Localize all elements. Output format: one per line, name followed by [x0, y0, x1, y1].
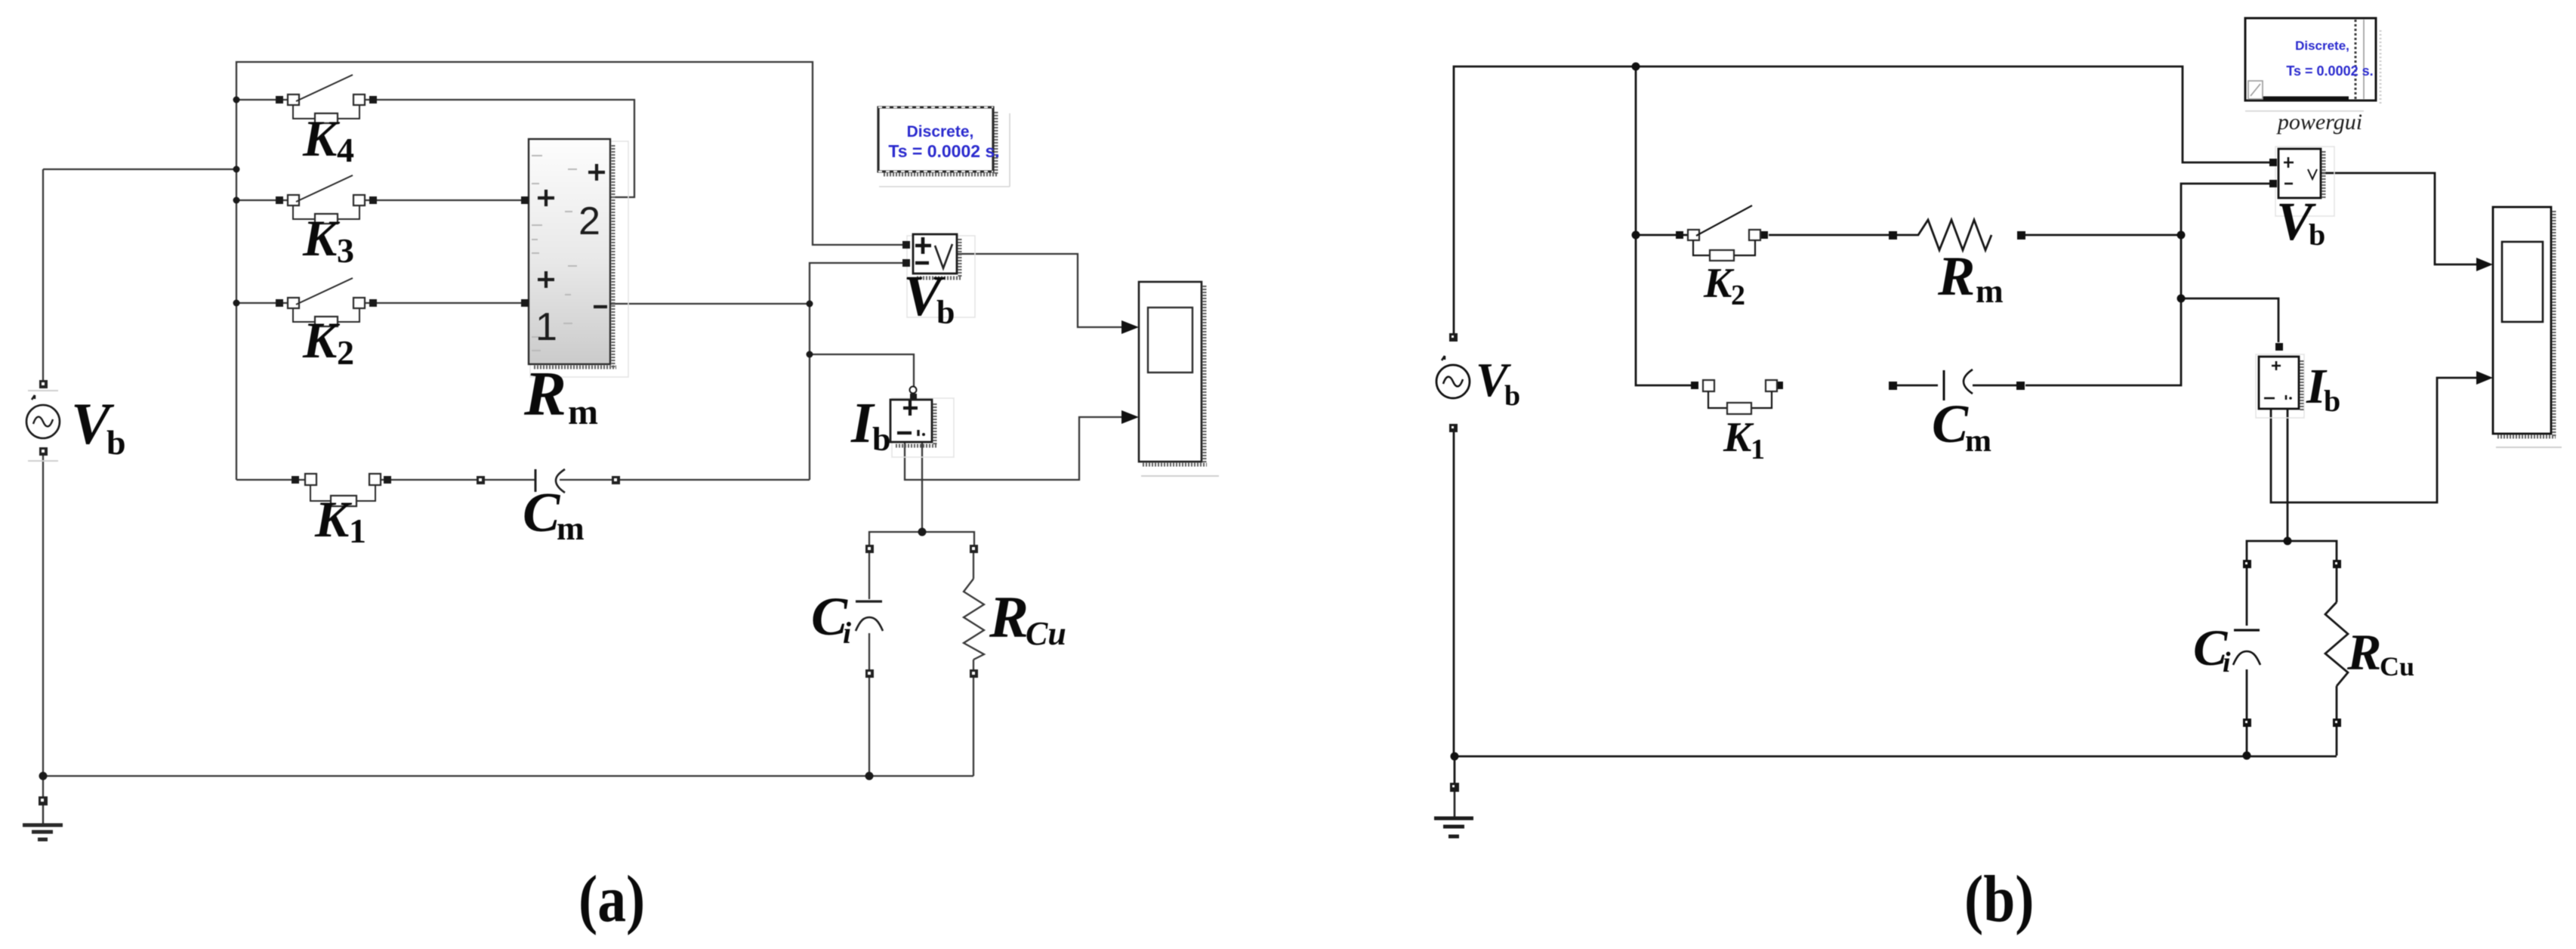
svg-text:K: K — [1703, 260, 1735, 307]
svg-text:i: i — [843, 616, 851, 650]
svg-text:2: 2 — [1731, 280, 1745, 311]
svg-text:b: b — [936, 294, 955, 331]
svg-text:K: K — [302, 209, 341, 267]
svg-text:R: R — [1937, 246, 1975, 308]
svg-text:K: K — [314, 490, 353, 548]
svg-text:b: b — [106, 423, 126, 462]
svg-text:1: 1 — [1751, 434, 1765, 465]
svg-text:1: 1 — [349, 512, 366, 550]
svg-text:m: m — [557, 510, 585, 547]
svg-text:b: b — [872, 421, 890, 458]
svg-text:R: R — [523, 359, 566, 429]
svg-text:(b): (b) — [1964, 862, 2034, 936]
svg-text:C: C — [1932, 394, 1969, 454]
svg-text:b: b — [2324, 384, 2340, 418]
svg-text:Cu: Cu — [2380, 651, 2414, 682]
svg-text:m: m — [1965, 424, 1991, 459]
svg-text:2: 2 — [578, 199, 600, 243]
svg-text:Cu: Cu — [1026, 615, 1066, 652]
svg-text:1: 1 — [535, 305, 557, 349]
svg-text:b: b — [2309, 218, 2325, 252]
svg-text:K: K — [1723, 414, 1754, 461]
svg-text:R: R — [989, 584, 1029, 650]
svg-text:Discrete,: Discrete, — [2295, 39, 2349, 53]
svg-text:K: K — [302, 110, 341, 167]
svg-text:2: 2 — [337, 333, 354, 372]
svg-text:3: 3 — [337, 231, 354, 270]
svg-text:m: m — [568, 392, 598, 432]
svg-text:Ts = 0.0002 s.: Ts = 0.0002 s. — [888, 141, 999, 161]
svg-text:b: b — [1504, 380, 1520, 412]
svg-text:powergui: powergui — [2276, 110, 2362, 134]
svg-text:C: C — [523, 482, 561, 544]
svg-text:i: i — [2223, 647, 2231, 679]
svg-text:(a): (a) — [578, 862, 645, 936]
svg-text:m: m — [1976, 273, 2004, 310]
svg-text:Ts = 0.0002 s.: Ts = 0.0002 s. — [2286, 63, 2373, 79]
svg-text:R: R — [2346, 623, 2381, 681]
svg-text:K: K — [302, 311, 341, 369]
svg-text:4: 4 — [337, 131, 354, 169]
svg-text:Discrete,: Discrete, — [907, 123, 974, 141]
